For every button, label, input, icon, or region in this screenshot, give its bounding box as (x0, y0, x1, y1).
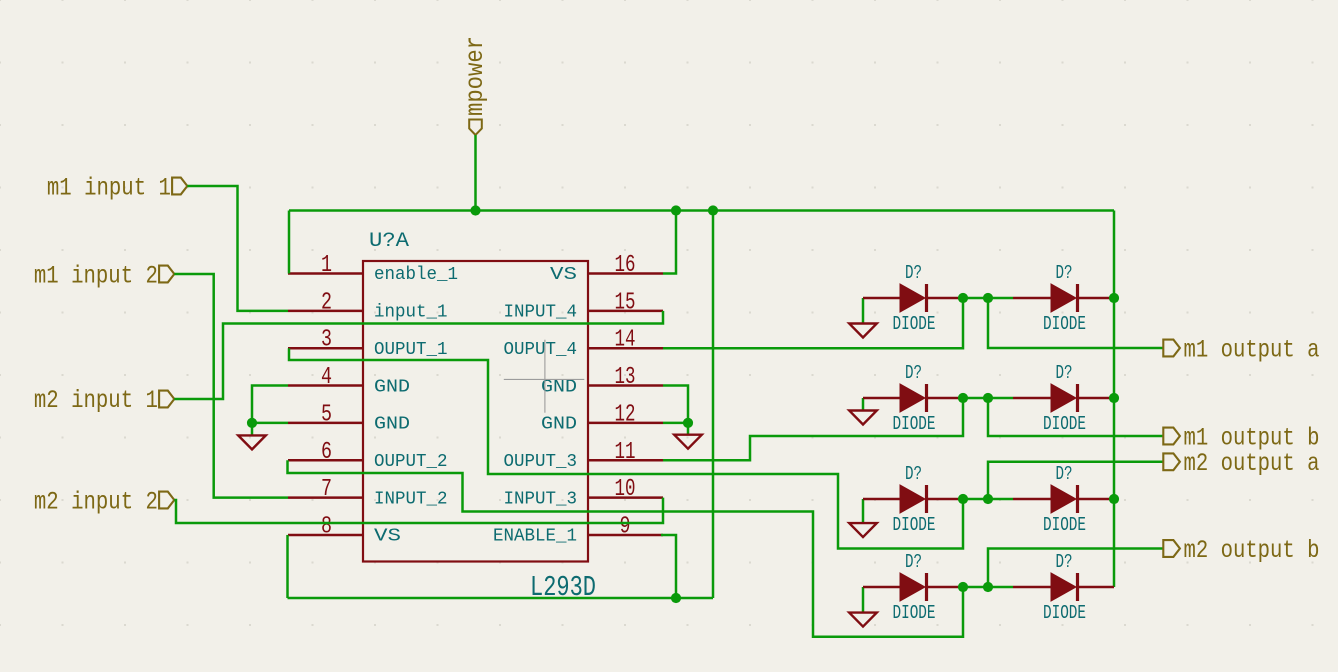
diode D3 (D?) (900, 384, 927, 412)
label D? for D7 (905, 551, 922, 573)
wire D2 cathode to bus (1079, 297, 1114, 300)
svg-text:INPUT_4: INPUT_4 (504, 303, 578, 323)
wire mid node row 1 (963, 297, 1013, 300)
pin 1 stub (288, 272, 363, 275)
wire m1 input 2 to pin7 (174, 274, 288, 498)
svg-text:D?: D? (905, 362, 922, 384)
svg-text:16: 16 (615, 252, 636, 279)
svg-text:GND: GND (374, 415, 410, 435)
label m1 output b (1163, 424, 1319, 453)
diode D8 (D?) (1051, 573, 1078, 601)
svg-text:INPUT_2: INPUT_2 (374, 489, 448, 509)
svg-text:D?: D? (1056, 362, 1073, 384)
junction bottom rail (671, 593, 681, 603)
pin name INPUT_4 (pin 15) (504, 303, 578, 323)
pin number 11 (615, 439, 636, 466)
svg-text:GND: GND (541, 377, 577, 397)
svg-text:DIODE: DIODE (893, 602, 936, 624)
label m1 output a (1163, 336, 1319, 365)
pin name GND (pin 12) (541, 415, 577, 435)
op-amp U1 body L293D (363, 261, 588, 562)
diode D6 (D?) (1051, 485, 1078, 513)
junction bus B (708, 205, 718, 215)
junction row 4 left (958, 582, 968, 592)
svg-text:DIODE: DIODE (893, 313, 936, 335)
pin number 5 (321, 401, 332, 428)
svg-text:6: 6 (321, 439, 332, 466)
label DIODE for D1 (893, 313, 936, 335)
ground diode row 2 (849, 398, 877, 425)
svg-text:m1 input 1: m1 input 1 (47, 174, 171, 203)
wire pin3 to row3 (289, 348, 963, 548)
wire pin6 to row4 (288, 460, 964, 636)
pin number 6 (321, 439, 332, 466)
label m2 output b (1163, 536, 1319, 565)
pin 6 stub (288, 459, 363, 462)
pin number 12 (615, 401, 636, 428)
svg-text:8: 8 (321, 513, 332, 540)
wire D7 cathode (928, 586, 963, 589)
reference U?A (369, 230, 409, 253)
label D? for D1 (905, 262, 922, 284)
pin 9 stub (588, 534, 663, 537)
wire D8 cathode to bus (1079, 586, 1114, 589)
ground diode row 1 (849, 298, 877, 338)
wire D6 cathode to bus (1079, 498, 1114, 501)
label DIODE for D5 (893, 514, 936, 536)
svg-text:m2 output b: m2 output b (1184, 536, 1320, 565)
wire pin16 to bus (663, 211, 676, 274)
svg-text:DIODE: DIODE (1043, 413, 1086, 435)
cursor crosshair (504, 340, 585, 413)
pin name ENABLE_1 (pin 9) (493, 527, 577, 547)
label m2 input 2 (34, 487, 174, 516)
pin number 3 (321, 327, 332, 354)
wire pin4 to gnd (252, 386, 288, 423)
junction bus A (671, 205, 681, 215)
svg-text:9: 9 (620, 513, 631, 540)
pin number 4 (321, 364, 332, 391)
junction row 2 right (983, 393, 993, 403)
wire row4 to m2 output b (988, 549, 1163, 588)
junction row 4 right (983, 582, 993, 592)
svg-text:OUPUT_4: OUPUT_4 (504, 340, 578, 360)
label D? for D6 (1056, 463, 1073, 485)
label DIODE for D2 (1043, 313, 1086, 335)
pin 10 stub (588, 496, 663, 499)
junction row 3 bus (1109, 494, 1119, 504)
pin 4 stub (288, 384, 363, 387)
svg-text:1: 1 (321, 252, 332, 279)
pin name OUPUT_4 (pin 14) (504, 340, 578, 360)
wire row2 to m1 output b (988, 398, 1163, 436)
pin number 7 (321, 476, 332, 503)
wire row1 to m1 output a (988, 298, 1163, 348)
pin number 9 (620, 513, 631, 540)
svg-text:14: 14 (615, 327, 636, 354)
wire m1 input 1 to pin2 (187, 186, 288, 311)
diode D2 (D?) (1051, 284, 1078, 312)
wire D3 cathode (928, 397, 963, 400)
diode D4 (D?) (1051, 384, 1078, 412)
label m1 input 1 (47, 174, 187, 203)
ground left (238, 423, 266, 450)
label D? for D5 (905, 463, 922, 485)
svg-text:m1 output b: m1 output b (1184, 424, 1320, 453)
svg-text:12: 12 (615, 401, 636, 428)
svg-text:OUPUT_2: OUPUT_2 (374, 452, 448, 472)
svg-text:D?: D? (1056, 551, 1073, 573)
svg-text:enable_1: enable_1 (374, 265, 458, 285)
pin number 14 (615, 327, 636, 354)
wire bus to bottom rail (712, 211, 715, 599)
wire gnd to D1 anode (863, 297, 900, 300)
svg-text:DIODE: DIODE (1043, 514, 1086, 536)
svg-text:m2 input 1: m2 input 1 (34, 386, 158, 415)
wire row3 to m2 output a (988, 462, 1163, 499)
svg-text:GND: GND (374, 377, 410, 397)
pin name INPUT_3 (pin 10) (504, 489, 578, 509)
svg-text:15: 15 (615, 289, 636, 316)
wire pin14 to row1 (663, 298, 963, 348)
wire mid node row 3 (963, 498, 1013, 501)
pin 11 stub (588, 459, 663, 462)
svg-text:D?: D? (905, 262, 922, 284)
svg-text:D?: D? (1056, 463, 1073, 485)
wire m2 input 2 to pin10 (174, 498, 663, 523)
wire pin9 drop (661, 535, 676, 598)
svg-text:D?: D? (1056, 262, 1073, 284)
value L293D (530, 571, 596, 604)
svg-text:4: 4 (321, 364, 332, 391)
svg-text:U?A: U?A (369, 230, 409, 253)
pin name OUPUT_2 (pin 6) (374, 452, 448, 472)
junction row 2 left (958, 393, 968, 403)
wire D4 cathode to bus (1079, 397, 1114, 400)
pin 8 stub (288, 534, 363, 537)
pin name enable_1 (pin 1) (374, 265, 458, 285)
svg-text:m1 input 2: m1 input 2 (34, 261, 158, 290)
pin 7 stub (288, 496, 363, 499)
label m2 output a (1163, 449, 1319, 478)
diode D7 (D?) (900, 573, 927, 601)
pin 15 stub (588, 310, 663, 313)
junction left gnd (247, 418, 257, 428)
svg-text:INPUT_3: INPUT_3 (504, 489, 578, 509)
label DIODE for D3 (893, 413, 936, 435)
svg-text:D?: D? (905, 551, 922, 573)
svg-text:13: 13 (615, 364, 636, 391)
ground right (674, 423, 702, 449)
wire gnd to D7 anode (863, 586, 900, 589)
ground diode row 4 (849, 587, 877, 627)
label D? for D2 (1056, 262, 1073, 284)
pin name input_1 (pin 2) (374, 303, 448, 323)
junction row 2 bus (1109, 393, 1119, 403)
svg-text:m2 output a: m2 output a (1184, 449, 1320, 478)
pin name OUPUT_1 (pin 3) (374, 340, 448, 360)
wire power stem (474, 135, 477, 211)
svg-text:mpower: mpower (461, 36, 490, 116)
pin number 10 (615, 476, 636, 503)
junction row 3 left (958, 494, 968, 504)
svg-text:D?: D? (905, 463, 922, 485)
wire bottom rail (288, 597, 714, 600)
svg-text:5: 5 (321, 401, 332, 428)
pin name VS (pin 8) (374, 527, 401, 547)
power label mpower (461, 36, 490, 135)
pin number 15 (615, 289, 636, 316)
pin 14 stub (588, 347, 663, 350)
junction row 1 right (983, 293, 993, 303)
svg-text:DIODE: DIODE (1043, 313, 1086, 335)
wire D5 cathode (928, 498, 963, 501)
svg-text:input_1: input_1 (374, 303, 448, 323)
svg-text:3: 3 (321, 327, 332, 354)
pin 5 stub (288, 422, 363, 425)
label m1 input 2 (34, 261, 174, 290)
pin number 1 (321, 252, 332, 279)
junction right gnd (683, 418, 693, 428)
svg-text:7: 7 (321, 476, 332, 503)
junction row 1 bus (1109, 293, 1119, 303)
label DIODE for D8 (1043, 602, 1086, 624)
pin number 13 (615, 364, 636, 391)
svg-text:DIODE: DIODE (1043, 602, 1086, 624)
svg-text:DIODE: DIODE (893, 413, 936, 435)
svg-text:m2 input 2: m2 input 2 (34, 487, 158, 516)
wire pin13 to gnd (663, 386, 688, 423)
pin 13 stub (588, 384, 663, 387)
pin number 16 (615, 252, 636, 279)
wire gnd to D5 anode (863, 498, 900, 501)
wire pin8 drop (286, 535, 289, 598)
svg-text:ENABLE_1: ENABLE_1 (493, 527, 577, 547)
pin 2 stub (288, 310, 363, 313)
pin name GND (pin 4) (374, 377, 410, 397)
wire m2 input 1 to pin15 (174, 311, 663, 399)
wire D4 anode (1013, 397, 1051, 400)
wire D6 anode (1013, 498, 1051, 501)
pin number 8 (321, 513, 332, 540)
junction row 3 right (983, 494, 993, 504)
svg-text:2: 2 (321, 289, 332, 316)
label m2 input 1 (34, 386, 174, 415)
wire pin1 to bus (288, 211, 291, 274)
pin name GND (pin 13) (541, 377, 577, 397)
wire top power bus (289, 209, 1114, 212)
svg-text:11: 11 (615, 439, 636, 466)
svg-text:OUPUT_1: OUPUT_1 (374, 340, 448, 360)
label D? for D3 (905, 362, 922, 384)
svg-text:10: 10 (615, 476, 636, 503)
pin 16 stub (588, 272, 663, 275)
wire D2 anode (1013, 297, 1051, 300)
junction row 1 left (958, 293, 968, 303)
svg-text:DIODE: DIODE (893, 514, 936, 536)
diode D1 (D?) (900, 284, 927, 312)
svg-text:m1 output a: m1 output a (1184, 336, 1320, 365)
pin 12 stub (588, 422, 663, 425)
wire D1 cathode (928, 297, 963, 300)
pin number 2 (321, 289, 332, 316)
pin name VS (pin 16) (550, 265, 577, 285)
label DIODE for D7 (893, 602, 936, 624)
label DIODE for D4 (1043, 413, 1086, 435)
wire mid node row 2 (963, 397, 1013, 400)
svg-text:OUPUT_3: OUPUT_3 (504, 452, 578, 472)
wire D8 anode (1013, 586, 1051, 589)
wire mid node row 4 (963, 586, 1013, 589)
label DIODE for D6 (1043, 514, 1086, 536)
junction power-bus (470, 205, 480, 215)
wire right vertical bus (1113, 211, 1116, 588)
pin name GND (pin 5) (374, 415, 410, 435)
svg-text:VS: VS (374, 527, 401, 547)
ground diode row 3 (849, 499, 877, 537)
svg-text:GND: GND (541, 415, 577, 435)
pin name INPUT_2 (pin 7) (374, 489, 448, 509)
label D? for D8 (1056, 551, 1073, 573)
pin name OUPUT_3 (pin 11) (504, 452, 578, 472)
pin 3 stub (288, 347, 363, 350)
wire pin11 to row2 (663, 398, 963, 460)
diode D5 (D?) (900, 485, 927, 513)
label D? for D4 (1056, 362, 1073, 384)
svg-text:VS: VS (550, 265, 577, 285)
wire gnd to D3 anode (863, 397, 900, 400)
